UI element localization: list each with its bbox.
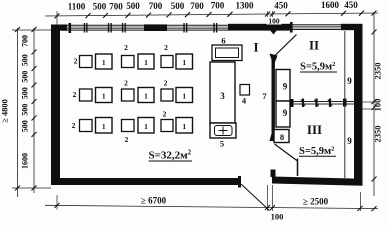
svg-text:≥ 4800: ≥ 4800 xyxy=(0,99,10,123)
svg-text:8: 8 xyxy=(280,132,284,142)
partition II/III batten mark 1 xyxy=(301,99,305,108)
svg-text:2: 2 xyxy=(124,43,128,52)
top wall pier segment xyxy=(144,24,167,31)
svg-text:700: 700 xyxy=(149,1,163,11)
svg-text:1: 1 xyxy=(144,92,148,101)
top wall mullion tick C xyxy=(108,23,109,33)
partition II/III double line with cross ticks xyxy=(290,101,355,103)
svg-text:II: II xyxy=(309,38,319,53)
svg-text:450: 450 xyxy=(274,0,288,10)
left inner dimension line xyxy=(33,28,35,193)
top wall mullion tick F xyxy=(213,23,214,33)
svg-text:700: 700 xyxy=(211,1,225,11)
chair r1c3 xyxy=(161,56,173,68)
top window strip band right xyxy=(293,24,342,29)
svg-text:9: 9 xyxy=(347,136,352,146)
door leaf I-II (top) xyxy=(275,35,297,56)
svg-text:2: 2 xyxy=(124,79,128,88)
svg-text:9: 9 xyxy=(283,108,288,118)
top window strip band left xyxy=(63,25,291,31)
svg-text:S=32,2м2: S=32,2м2 xyxy=(149,149,192,162)
top dim slash ticks xyxy=(55,11,377,19)
bottom dimension line xyxy=(45,205,378,208)
svg-text:2350: 2350 xyxy=(373,126,383,143)
partition II/III end tick left xyxy=(290,99,294,107)
partition II/III batten mark 3 xyxy=(328,99,332,108)
svg-text:≥ 2500: ≥ 2500 xyxy=(303,196,329,206)
svg-text:S=5,9м2: S=5,9м2 xyxy=(299,145,334,157)
top dim extension lines xyxy=(56,11,58,25)
right wall xyxy=(354,24,363,185)
wardrobe item 3 xyxy=(210,62,235,123)
desk r1c3 xyxy=(176,54,193,69)
stool item 4 xyxy=(240,85,250,96)
svg-text:100: 100 xyxy=(373,99,383,112)
top wall jamb tick at door xyxy=(290,22,293,33)
svg-text:2: 2 xyxy=(73,90,77,99)
chair r2c3 xyxy=(161,89,173,101)
svg-text:500: 500 xyxy=(21,87,30,99)
svg-text:1: 1 xyxy=(102,122,106,131)
top wall mullion tick D xyxy=(122,23,123,33)
svg-text:2: 2 xyxy=(164,79,168,88)
door leaf I-III (bottom) xyxy=(275,144,298,161)
top sub dim 100 xyxy=(267,17,282,25)
svg-text:1: 1 xyxy=(182,122,186,131)
svg-text:I: I xyxy=(253,40,258,55)
door leaf III tick on bottom wall xyxy=(297,159,299,177)
svg-text:1: 1 xyxy=(182,92,186,101)
svg-text:450: 450 xyxy=(344,0,358,10)
cabinet strip item 9 room III front line xyxy=(344,105,346,179)
desk r3c3 xyxy=(176,118,193,134)
cupboard 9a xyxy=(276,70,290,102)
svg-text:700: 700 xyxy=(21,35,30,47)
bottom wall left of entrance xyxy=(51,178,241,185)
svg-text:6: 6 xyxy=(221,36,225,46)
svg-text:500: 500 xyxy=(21,104,30,116)
svg-text:3: 3 xyxy=(220,91,225,101)
desk r1c1 xyxy=(96,54,113,69)
svg-text:1: 1 xyxy=(182,58,186,67)
svg-text:500: 500 xyxy=(21,71,30,83)
top wall corner pier left xyxy=(51,25,67,31)
svg-text:9: 9 xyxy=(283,82,288,92)
svg-text:2: 2 xyxy=(164,43,168,52)
chair r1c2 xyxy=(122,56,135,68)
svg-text:2350: 2350 xyxy=(373,63,383,80)
partition jamb wedge under top wall xyxy=(270,30,278,35)
teacher table item 6 xyxy=(212,45,242,61)
svg-text:100: 100 xyxy=(268,17,280,26)
svg-text:≥ 6700: ≥ 6700 xyxy=(141,196,167,206)
svg-text:500: 500 xyxy=(93,1,107,11)
top wall mullion tick B xyxy=(84,23,85,33)
chair r1c1 xyxy=(80,56,93,68)
desk r3c2 xyxy=(138,118,154,134)
partition jamb stub above bottom wall xyxy=(271,170,276,178)
svg-text:1: 1 xyxy=(144,122,148,131)
desk r3c1 xyxy=(96,118,113,134)
top wall mullion tick E xyxy=(183,23,184,33)
partition II/III batten mark 2 xyxy=(314,99,318,108)
left wall xyxy=(51,25,60,186)
svg-text:1600: 1600 xyxy=(321,0,340,10)
svg-text:700: 700 xyxy=(190,1,204,11)
svg-text:III: III xyxy=(307,122,322,137)
chair r3c1 xyxy=(80,120,93,132)
desk r2c1 xyxy=(96,88,113,103)
svg-text:500: 500 xyxy=(171,1,185,11)
chair r2c2 xyxy=(122,89,135,101)
svg-text:1: 1 xyxy=(102,92,106,101)
top dim labels xyxy=(68,0,359,12)
chair r3c2 xyxy=(122,120,135,132)
cupboard 9b xyxy=(276,101,290,127)
bottom wall right of entrance xyxy=(272,177,363,186)
top dimension line xyxy=(45,13,378,16)
right dimension line xyxy=(372,30,377,182)
desk r1c2 xyxy=(138,54,154,69)
svg-text:5: 5 xyxy=(220,139,224,149)
svg-text:500: 500 xyxy=(21,54,30,66)
top wall corner pier right xyxy=(341,24,363,30)
svg-text:500: 500 xyxy=(21,120,30,132)
partition wall I/II-III with flared ends (item 7) xyxy=(272,58,275,132)
svg-text:2: 2 xyxy=(72,121,76,130)
left outer dimension line 4800 xyxy=(17,28,19,197)
top wall blind pier 1300 xyxy=(228,24,291,31)
svg-text:1100: 1100 xyxy=(68,2,86,12)
svg-text:1300: 1300 xyxy=(236,1,255,11)
entrance door leaf xyxy=(241,184,270,211)
svg-text:1: 1 xyxy=(102,58,106,67)
svg-text:2: 2 xyxy=(74,57,78,66)
svg-text:1600: 1600 xyxy=(21,153,30,169)
cupboard 8 xyxy=(274,130,289,143)
desk r2c3 xyxy=(176,88,193,103)
sink item 5 xyxy=(210,123,236,138)
cabinet strip item 9 room II front line xyxy=(344,31,346,100)
svg-text:100: 100 xyxy=(271,212,284,222)
svg-text:2: 2 xyxy=(125,135,129,144)
chair r3c3 xyxy=(161,120,173,132)
svg-text:S=5,9м2: S=5,9м2 xyxy=(300,61,335,73)
chair r2c1 xyxy=(80,89,93,101)
svg-text:2: 2 xyxy=(163,110,167,119)
entrance jamb tick xyxy=(238,176,241,188)
svg-text:1: 1 xyxy=(144,58,148,67)
top wall mullion tick A xyxy=(69,23,72,33)
svg-text:9: 9 xyxy=(347,76,352,86)
desk r2c2 xyxy=(138,88,154,103)
svg-text:500: 500 xyxy=(126,1,140,11)
svg-text:700: 700 xyxy=(109,1,123,11)
partition II/III end tick right xyxy=(343,99,347,107)
